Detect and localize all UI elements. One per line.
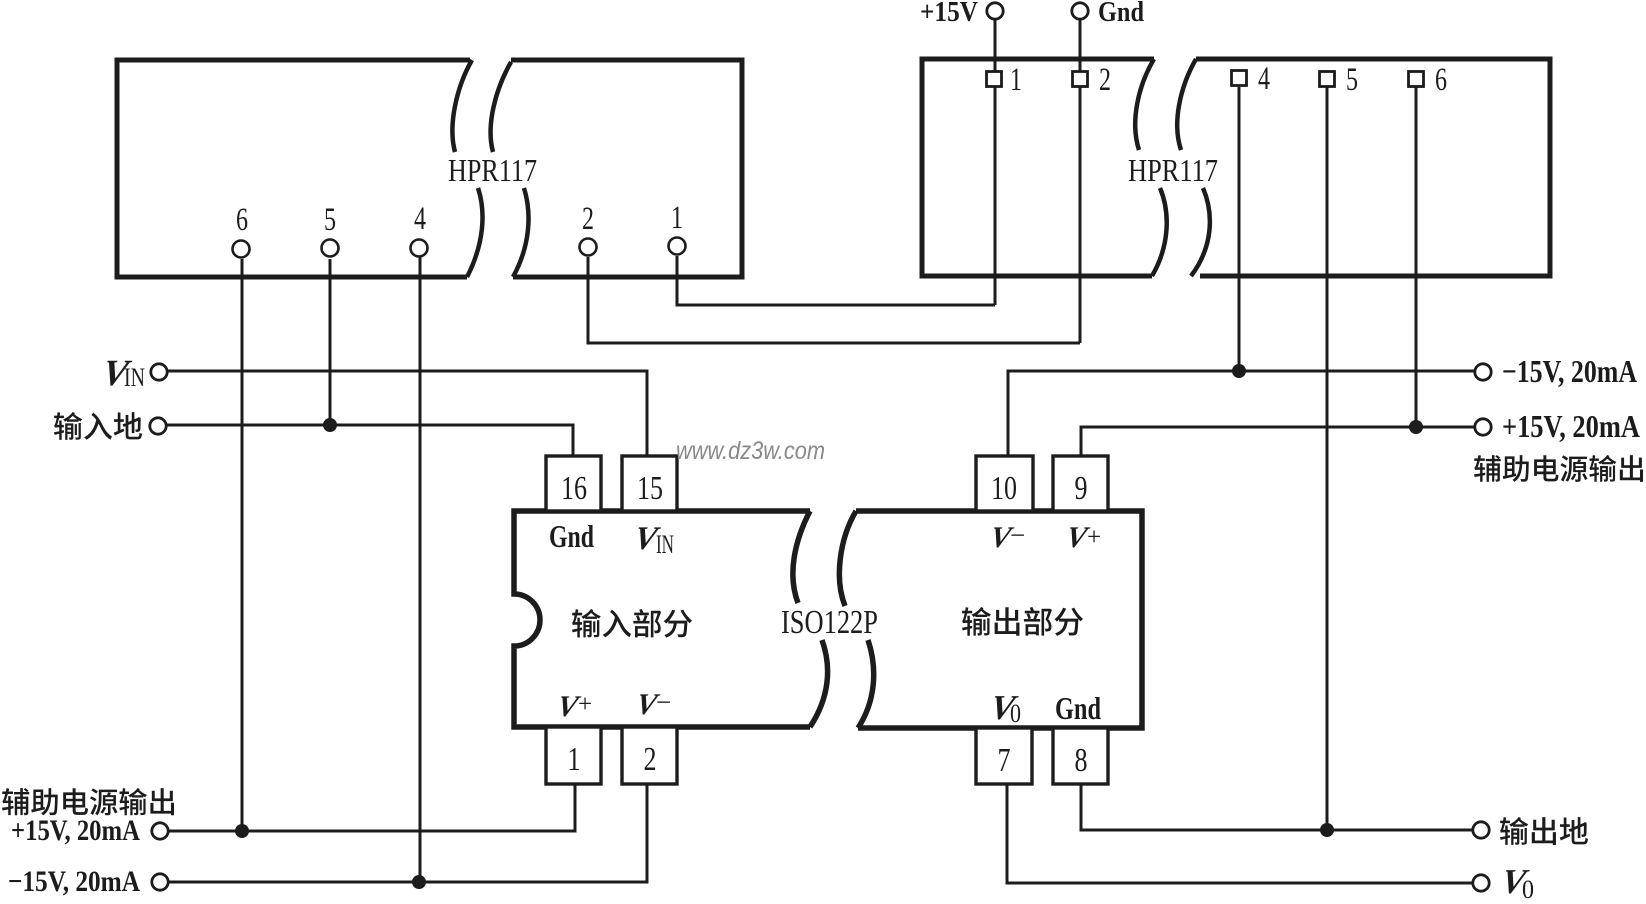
label auxiliary power output right 辅助电源输出 (1474, 455, 1643, 482)
wire U1 pin4 down (419, 257, 422, 882)
terminal output ground (1473, 822, 1489, 838)
wire Gnd to U2 pin2 and U1 pin2 (588, 20, 1080, 343)
svg-text:0: 0 (1522, 875, 1534, 899)
module U1 break mark arcs (452, 60, 528, 277)
svg-text:+15V, 20mA: +15V, 20mA (11, 814, 140, 847)
wire VIN to U3 pin15 (168, 371, 647, 456)
svg-text:7: 7 (998, 742, 1011, 779)
U2 pin 2 square (1073, 72, 1088, 87)
IC U3 ISO122P input section outline (514, 511, 810, 727)
junction U2 pin6 / +15V rail (1409, 420, 1423, 434)
U1 pin 1 circle (669, 238, 686, 255)
IC U3 ISO122P output section outline (856, 511, 1142, 728)
svg-text:1: 1 (1010, 62, 1022, 98)
wire U3 pin7 to V0 (1007, 784, 1472, 883)
terminal -15V 20mA right (1475, 364, 1491, 380)
terminal +15V 20mA right (1475, 419, 1491, 435)
U3 pin 7 box (976, 728, 1032, 784)
terminal +15V input (987, 3, 1003, 19)
U3 pin 2 box (622, 727, 677, 784)
wire +15V to U2 pin1 and U1 pin1 (677, 20, 995, 305)
U3 pin 15 box (622, 456, 677, 511)
svg-text:HPR117: HPR117 (448, 152, 537, 188)
svg-text:Gnd: Gnd (1098, 0, 1144, 28)
svg-text:+15V: +15V (920, 0, 978, 28)
wire +15V20mA to U3 pin1 (169, 784, 575, 831)
svg-text:Gnd: Gnd (1055, 690, 1101, 726)
label auxiliary power output left 辅助电源输出 (2, 788, 174, 815)
U3 pin 8 box (1053, 728, 1108, 784)
U1 pin 4 circle (411, 240, 428, 257)
junction U2 pin5 / output ground (1320, 823, 1334, 837)
module U1 HPR117 left outline (117, 60, 742, 277)
svg-text:1: 1 (671, 200, 683, 236)
U2 pin 6 square (1409, 72, 1424, 87)
svg-text:−: − (1010, 520, 1025, 550)
U2 pin 4 square (1232, 71, 1247, 86)
terminal VIN (151, 364, 167, 380)
U2 pin 1 square (987, 72, 1002, 87)
svg-text:15: 15 (637, 470, 663, 507)
U3 pin 16 box (546, 456, 601, 511)
U3 pin 9 box (1053, 456, 1108, 511)
junction U1 pin6 / +15V rail (235, 824, 249, 838)
terminal Gnd input (1072, 3, 1088, 19)
U3 pin 1 box (546, 727, 601, 784)
wire +15V rail to U3 pin9 (1081, 427, 1474, 456)
svg-text:10: 10 (991, 470, 1017, 507)
svg-text:+15V, 20mA: +15V, 20mA (1502, 408, 1640, 444)
wire U2 pin6 down (1415, 87, 1418, 427)
svg-text:2: 2 (1099, 62, 1111, 98)
module U2 break mark arcs (1135, 59, 1210, 276)
U3 output section break arcs (839, 511, 873, 728)
U3 output section label 输出部分 (962, 607, 1083, 636)
junction U1 pin4 / -15V rail (412, 875, 426, 889)
wire U1 pin5 down (329, 259, 332, 425)
svg-text:ISO122P: ISO122P (781, 604, 878, 641)
junction U2 pin4 / -15V rail (1232, 364, 1246, 378)
U3 input section break arcs (793, 511, 828, 727)
wire U1 pin6 down (241, 259, 244, 831)
svg-text:−: − (656, 687, 671, 717)
U2 pin 5 square (1320, 72, 1335, 87)
terminal input ground (150, 418, 166, 434)
U3 input section label 输入部分 (572, 609, 692, 638)
svg-text:8: 8 (1075, 742, 1088, 779)
wire -15V20mA to U3 pin2 (169, 784, 647, 882)
svg-text:4: 4 (1258, 61, 1270, 97)
wire U2 pin5 down (1326, 87, 1329, 830)
wire U2 pin4 down (1238, 87, 1241, 371)
terminal +15V 20mA left (152, 823, 168, 839)
svg-text:HPR117: HPR117 (1128, 152, 1218, 188)
svg-text:www.dz3w.com: www.dz3w.com (676, 437, 825, 465)
wire -15V rail to U3 pin10 (1008, 371, 1474, 456)
terminal V0 (1473, 875, 1489, 891)
svg-text:+: + (578, 691, 592, 718)
svg-text:1: 1 (568, 741, 581, 778)
terminal -15V 20mA left (152, 874, 168, 890)
svg-text:+: + (1087, 524, 1101, 551)
svg-text:5: 5 (1346, 62, 1358, 98)
U1 pin 2 circle (580, 239, 597, 256)
svg-text:IN: IN (656, 530, 674, 559)
svg-text:9: 9 (1075, 470, 1088, 507)
wire input-ground to U3 pin16 (167, 425, 573, 456)
svg-text:2: 2 (582, 201, 594, 237)
svg-text:4: 4 (414, 201, 426, 237)
svg-text:6: 6 (1435, 62, 1447, 98)
svg-text:−15V, 20mA: −15V, 20mA (1502, 353, 1637, 389)
node input-ground label 输入地 (54, 412, 142, 440)
svg-text:−15V, 20mA: −15V, 20mA (8, 865, 140, 898)
svg-text:Gnd: Gnd (549, 518, 594, 554)
svg-text:0: 0 (1010, 699, 1021, 728)
node output-ground label 输出地 (1500, 817, 1588, 845)
U1 pin 5 circle (322, 240, 339, 257)
svg-text:6: 6 (236, 202, 248, 238)
U1 pin 6 circle (233, 241, 250, 258)
svg-text:IN: IN (124, 363, 145, 392)
junction U1 pin5 / input ground (323, 418, 337, 432)
svg-text:2: 2 (644, 741, 657, 778)
U3 pin 10 box (976, 456, 1033, 511)
wire U3 pin8 to output ground (1081, 784, 1472, 830)
svg-text:5: 5 (324, 202, 336, 238)
module U2 HPR117 right outline (922, 59, 1550, 276)
svg-text:16: 16 (561, 470, 587, 507)
